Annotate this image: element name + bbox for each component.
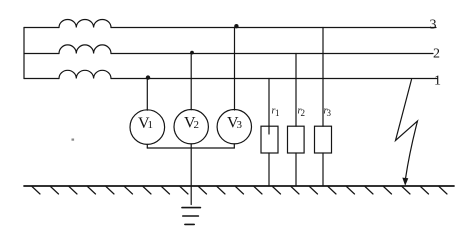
wire: phase bus 2 right segment (111, 53, 433, 55)
earth surface line (24, 185, 454, 187)
inductor L2 (middle phase coil) (59, 45, 111, 54)
node: junction of V2 on bus 2 (190, 51, 194, 55)
lightning arrowhead (402, 178, 408, 186)
svg-text:3: 3 (430, 18, 437, 33)
svg-text:3: 3 (327, 108, 332, 118)
wire: r1 to earth (268, 153, 270, 186)
inductor L3 (top phase coil) (59, 19, 111, 27)
svg-text:1: 1 (148, 119, 154, 131)
speck (scan artifact) (72, 139, 75, 141)
node: junction of V1 on bus 1 (146, 75, 150, 79)
svg-text:2: 2 (301, 108, 306, 118)
wire: r2 to earth (295, 153, 297, 186)
wire: V1 drop from bus 1 (146, 79, 148, 111)
voltmeter V3 (217, 110, 251, 144)
wire: r3 to earth (322, 153, 324, 186)
wire: V3 stub to common bar (233, 144, 235, 148)
resistor r3 (grounding resistor box) (315, 126, 332, 153)
resistor r2 (grounding resistor box) (288, 126, 305, 153)
svg-text:1: 1 (434, 74, 441, 89)
wire: V1 stub to common bar (146, 144, 148, 148)
svg-text:3: 3 (237, 119, 243, 131)
voltmeter V1 (130, 110, 165, 145)
node: junction of V3 on bus 3 (234, 24, 238, 28)
wire: r2 from bus 2 to box (295, 54, 297, 127)
svg-text:2: 2 (433, 47, 440, 62)
wire: V2 stub to common bar (190, 144, 192, 148)
lightning stroke (zigzag) (396, 80, 418, 179)
earth surface hatching (32, 187, 447, 195)
wire: phase bus 2 left segment (24, 53, 59, 55)
resistor r1 (grounding resistor box) (261, 126, 278, 153)
wire: phase bus 3 left segment (24, 27, 59, 29)
wire: phase bus 1 right segment (111, 78, 437, 80)
svg-text:2: 2 (194, 119, 200, 131)
wire: neutral drop to earth (190, 148, 192, 205)
wire: V2 drop from bus 2 (190, 54, 192, 110)
svg-text:1: 1 (275, 108, 280, 118)
wire: left vertical bus tie (23, 28, 25, 79)
inductor L1 (bottom phase coil) (59, 70, 111, 78)
wire: phase bus 1 left segment (24, 78, 59, 80)
voltmeter V2 (174, 110, 208, 144)
wire: r3 from bus 3 to box (322, 28, 324, 127)
wire: phase bus 3 right segment (111, 27, 436, 29)
wire: V3 drop from bus 3 (234, 28, 236, 111)
wire: r1 from bus 1 into box (268, 79, 270, 135)
wire: voltmeter common bar (147, 147, 234, 149)
ground (earth electrode symbol) (182, 208, 200, 225)
